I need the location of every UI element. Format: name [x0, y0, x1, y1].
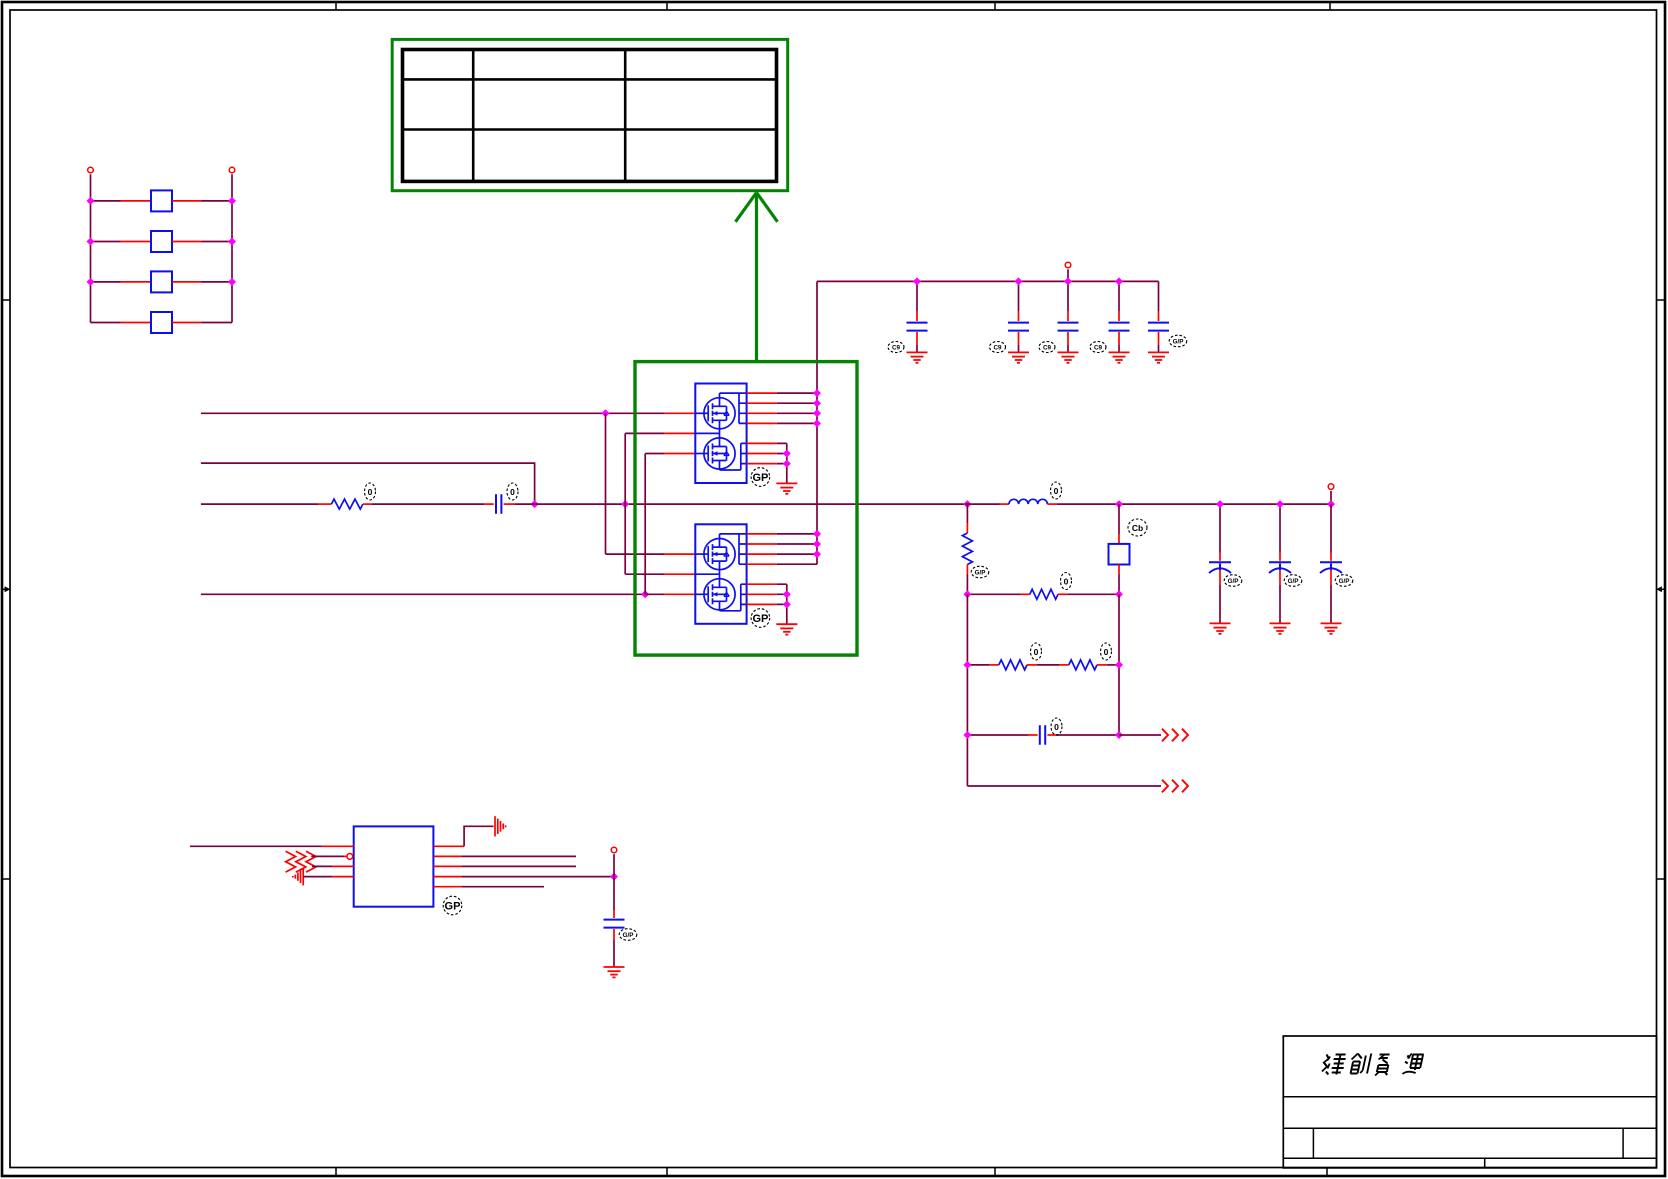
port VCC	[611, 847, 617, 853]
wire left vertical	[90, 174, 92, 322]
junction dot line1	[602, 409, 610, 417]
inductor L1	[965, 499, 1057, 504]
jumper R4	[91, 312, 233, 333]
frame tick top 1	[335, 2, 337, 10]
svg-text:C9: C9	[1043, 345, 1052, 352]
junction dot U2 pin2	[813, 540, 821, 548]
title row line 1	[1283, 1096, 1656, 1098]
title row line 2	[1283, 1127, 1656, 1129]
U3 pin 3 wire	[312, 865, 354, 867]
jumper R2	[91, 231, 233, 252]
jumper R3	[91, 271, 233, 292]
title cell divider a	[1312, 1128, 1314, 1158]
IC U3 body	[354, 826, 434, 906]
label C6	[507, 483, 518, 500]
resistor R8	[967, 660, 1036, 670]
svg-text:0: 0	[368, 487, 373, 497]
revision table column line 2	[624, 50, 627, 182]
resistor R9	[1037, 660, 1119, 670]
off-page connector FB	[1162, 729, 1188, 742]
U3 right pin 4 wire	[433, 876, 614, 878]
wire port stub	[1067, 269, 1069, 281]
transistor Q3	[695, 539, 735, 570]
wire input line 2	[201, 463, 535, 504]
svg-text:0: 0	[1034, 647, 1039, 657]
resistor R6 (sense divider top)	[962, 504, 972, 594]
junction dot Cb top	[1115, 500, 1123, 508]
transistor Q1	[695, 398, 735, 429]
junction dot C2	[1015, 277, 1023, 285]
title cell divider b	[1622, 1128, 1624, 1158]
frame tick right 2	[1657, 878, 1666, 880]
resistor R7	[1020, 589, 1119, 599]
label C5	[1169, 335, 1187, 347]
ground C10	[1210, 623, 1231, 633]
svg-text:C9: C9	[892, 345, 901, 352]
label U2 GP	[751, 609, 770, 628]
svg-text:G/P: G/P	[1288, 578, 1299, 585]
junction dots U2 source	[783, 590, 791, 608]
wire V2 bottom to block B mid	[625, 573, 695, 575]
svg-text:C9: C9	[1094, 345, 1103, 352]
ground C1	[907, 352, 928, 362]
label Cb	[1128, 519, 1147, 536]
port P2	[229, 167, 235, 173]
frame tick top 3	[994, 2, 996, 10]
node PHASE	[963, 500, 971, 508]
svg-text:Cb: Cb	[1132, 523, 1143, 533]
wire input line 1	[201, 412, 606, 414]
wire line3 mid	[372, 503, 484, 505]
svg-text:0: 0	[1054, 722, 1059, 732]
label C12	[1335, 575, 1353, 587]
no-connect resistor array	[286, 851, 316, 872]
wire line4 to lower gate B	[645, 593, 695, 595]
frame tick top 4	[1329, 2, 1331, 10]
jumper R1	[91, 190, 233, 211]
wire sense row 1	[967, 593, 1020, 595]
label C3	[1039, 342, 1055, 353]
junction dots C7 row	[963, 731, 1123, 739]
U2 source pin wires	[747, 584, 787, 624]
U2 internal drain bus	[720, 534, 747, 564]
wire right vertical	[231, 174, 233, 322]
label R9	[1101, 643, 1112, 660]
label R7	[1061, 573, 1072, 590]
label R5	[365, 483, 376, 500]
small earth symbol left	[293, 868, 303, 885]
junction dots R8 R9 row	[963, 661, 1123, 669]
transistor Q2	[695, 438, 735, 469]
svg-text:G/P: G/P	[1173, 339, 1184, 346]
wire right rail down	[1118, 594, 1120, 735]
svg-text:0: 0	[1104, 647, 1109, 657]
ground C5	[1148, 352, 1169, 362]
label R8	[1031, 643, 1042, 660]
transistor Q4	[695, 579, 735, 610]
junction dot U2 pin3	[813, 550, 821, 558]
resistor network box Cb	[1109, 504, 1130, 594]
svg-text:C9: C9	[993, 345, 1002, 352]
U2 pin 4 wire	[747, 563, 817, 565]
junction dot VOUT	[1327, 500, 1335, 508]
title block outer	[1283, 1036, 1656, 1168]
label C11	[1284, 575, 1302, 587]
capacitor C3	[1058, 281, 1079, 352]
junction dot U1 pin3	[813, 409, 821, 417]
U1 internal source bus	[720, 443, 747, 470]
junction dot C4	[1115, 277, 1123, 285]
wire line3 to phase	[515, 503, 965, 505]
wire VOUT rail	[1057, 503, 1331, 505]
junction dot C3	[1064, 277, 1072, 285]
wire V1 to lower block gate	[606, 553, 696, 555]
small earth symbol right	[495, 816, 506, 836]
ground C11	[1270, 623, 1291, 633]
junction dot C10	[1216, 500, 1224, 508]
junction dot U2 pin1	[813, 530, 821, 538]
wire input line 4	[201, 593, 645, 595]
svg-text:0: 0	[1054, 486, 1059, 496]
capacitor C2	[1008, 281, 1029, 352]
U2 pin 2 wire	[747, 543, 817, 545]
revision table column line 1	[472, 50, 475, 182]
ground C3	[1058, 352, 1079, 362]
title row line 3	[1283, 1157, 1656, 1159]
svg-text:G/P: G/P	[1339, 578, 1350, 585]
frame tick left 1	[2, 299, 10, 301]
svg-text:GP: GP	[752, 472, 768, 484]
capacitor C4	[1109, 281, 1130, 352]
wire V3 to block A gate 2	[645, 453, 695, 455]
revision table row line 1	[403, 78, 777, 81]
output capacitor C12	[1320, 504, 1342, 623]
U1 source pin wires	[747, 443, 787, 483]
wire V1 vertical	[605, 413, 607, 554]
wire input rail vertical	[816, 281, 818, 564]
label C4	[1090, 342, 1106, 353]
resistor R5	[318, 499, 372, 509]
junction dot C1	[913, 277, 921, 285]
svg-text:G/P: G/P	[975, 570, 986, 577]
wire VCC down	[613, 854, 615, 910]
label C1	[888, 342, 904, 353]
junction dots R3	[87, 278, 95, 286]
junction dots R2	[87, 238, 95, 246]
label U1 GP	[751, 468, 770, 487]
revision table outer border	[403, 50, 777, 182]
ground U2	[776, 624, 797, 634]
U1 internal phase node	[695, 420, 719, 446]
wire V2 top to block A mid	[625, 432, 695, 434]
svg-text:0: 0	[1064, 577, 1069, 587]
U3 pin 4 wire	[303, 876, 354, 878]
frame center arrow right	[1656, 586, 1664, 592]
frame center arrow left	[2, 586, 10, 592]
port VIN	[1065, 262, 1071, 268]
U3 pin 2 wire with bubble	[311, 854, 352, 860]
revision table row line 2	[403, 128, 777, 131]
dual MOSFET package U1 (block A)	[695, 384, 746, 484]
label R6	[971, 566, 989, 578]
junction dot U1 pin2	[813, 399, 821, 407]
label C8	[619, 929, 637, 941]
wire input bus	[817, 280, 1159, 282]
U1 internal drain bus	[720, 393, 747, 423]
U3 right pin 5 wire	[433, 886, 544, 888]
U3 right pin 1 to earth	[433, 826, 493, 846]
wire V2 vertical	[624, 433, 626, 574]
wire port VOUT stub	[1330, 491, 1332, 504]
junction dots U1 source	[783, 450, 791, 468]
green highlight box	[635, 362, 857, 655]
wire left rail down	[966, 594, 968, 786]
ground C2	[1008, 352, 1029, 362]
U1 pin 2 wire	[747, 402, 817, 404]
frame tick left 2	[2, 878, 10, 880]
junction dot phase left	[621, 500, 629, 508]
U2 internal phase node	[695, 561, 719, 587]
frame tick bottom 4	[1326, 1168, 1328, 1177]
ground C4	[1109, 352, 1130, 362]
wire line1 to upper gate	[606, 412, 696, 414]
output capacitor C11	[1269, 504, 1291, 623]
junction dot line4	[641, 590, 649, 598]
label C10	[1224, 575, 1242, 587]
junction dots R1	[87, 197, 95, 205]
U3 right pin 3 wire	[433, 865, 576, 867]
frame tick bottom 1	[335, 1168, 337, 1177]
port P1	[88, 167, 94, 173]
frame tick right 1	[1657, 299, 1666, 301]
label C2	[990, 342, 1006, 353]
ground C12	[1321, 623, 1342, 633]
U2 pin 3 wire	[747, 553, 817, 555]
port VOUT	[1328, 484, 1334, 490]
capacitor C5	[1148, 281, 1169, 352]
frame tick bottom 3	[994, 1168, 996, 1177]
svg-text:G/P: G/P	[623, 932, 634, 939]
U1 pin 1 wire	[747, 392, 817, 394]
capacitor C6	[484, 494, 514, 514]
ground C8	[604, 967, 625, 977]
company name 緯創資通	[1321, 1054, 1424, 1076]
wire sense out bottom	[967, 785, 1161, 787]
frame tick top 2	[666, 2, 668, 10]
output capacitor C10	[1209, 504, 1231, 623]
U1 pin 3 wire	[747, 412, 817, 414]
junction dot U1 pin1	[813, 389, 821, 397]
junction dot pin4	[610, 873, 618, 881]
U1 pin 4 wire	[747, 422, 817, 424]
U2 internal source bus	[720, 584, 747, 611]
frame tick bottom 2	[666, 1168, 668, 1177]
junction dot U1 pin4	[813, 419, 821, 427]
U2 pin 1 wire	[747, 533, 817, 535]
junction dot line2	[531, 500, 539, 508]
junction dot C11	[1276, 500, 1284, 508]
U3 pin EN wire	[190, 845, 354, 847]
wire input line 3 left	[201, 503, 318, 505]
capacitor C1	[907, 281, 928, 352]
green callout arrow to table	[736, 193, 778, 362]
wire V3 vertical	[644, 454, 646, 595]
wire feedback out	[1119, 734, 1161, 736]
revision table green frame	[392, 39, 788, 190]
capacitor C7 feedback	[967, 725, 1119, 745]
svg-text:GP: GP	[752, 613, 768, 625]
title cell divider c	[1484, 1158, 1486, 1167]
ground U1	[776, 483, 797, 493]
label C7	[1051, 718, 1062, 735]
svg-text:0: 0	[510, 487, 515, 497]
label U3 GP	[443, 896, 462, 915]
U3 right pin 2 wire	[433, 855, 576, 857]
junction dots sense row1	[963, 590, 1123, 598]
off-page connector SENSE	[1162, 780, 1188, 793]
capacitor C8	[604, 910, 625, 967]
dual MOSFET package U2 (block B)	[695, 524, 746, 624]
svg-text:GP: GP	[445, 901, 461, 913]
svg-text:G/P: G/P	[1228, 578, 1239, 585]
label L1	[1051, 482, 1062, 499]
